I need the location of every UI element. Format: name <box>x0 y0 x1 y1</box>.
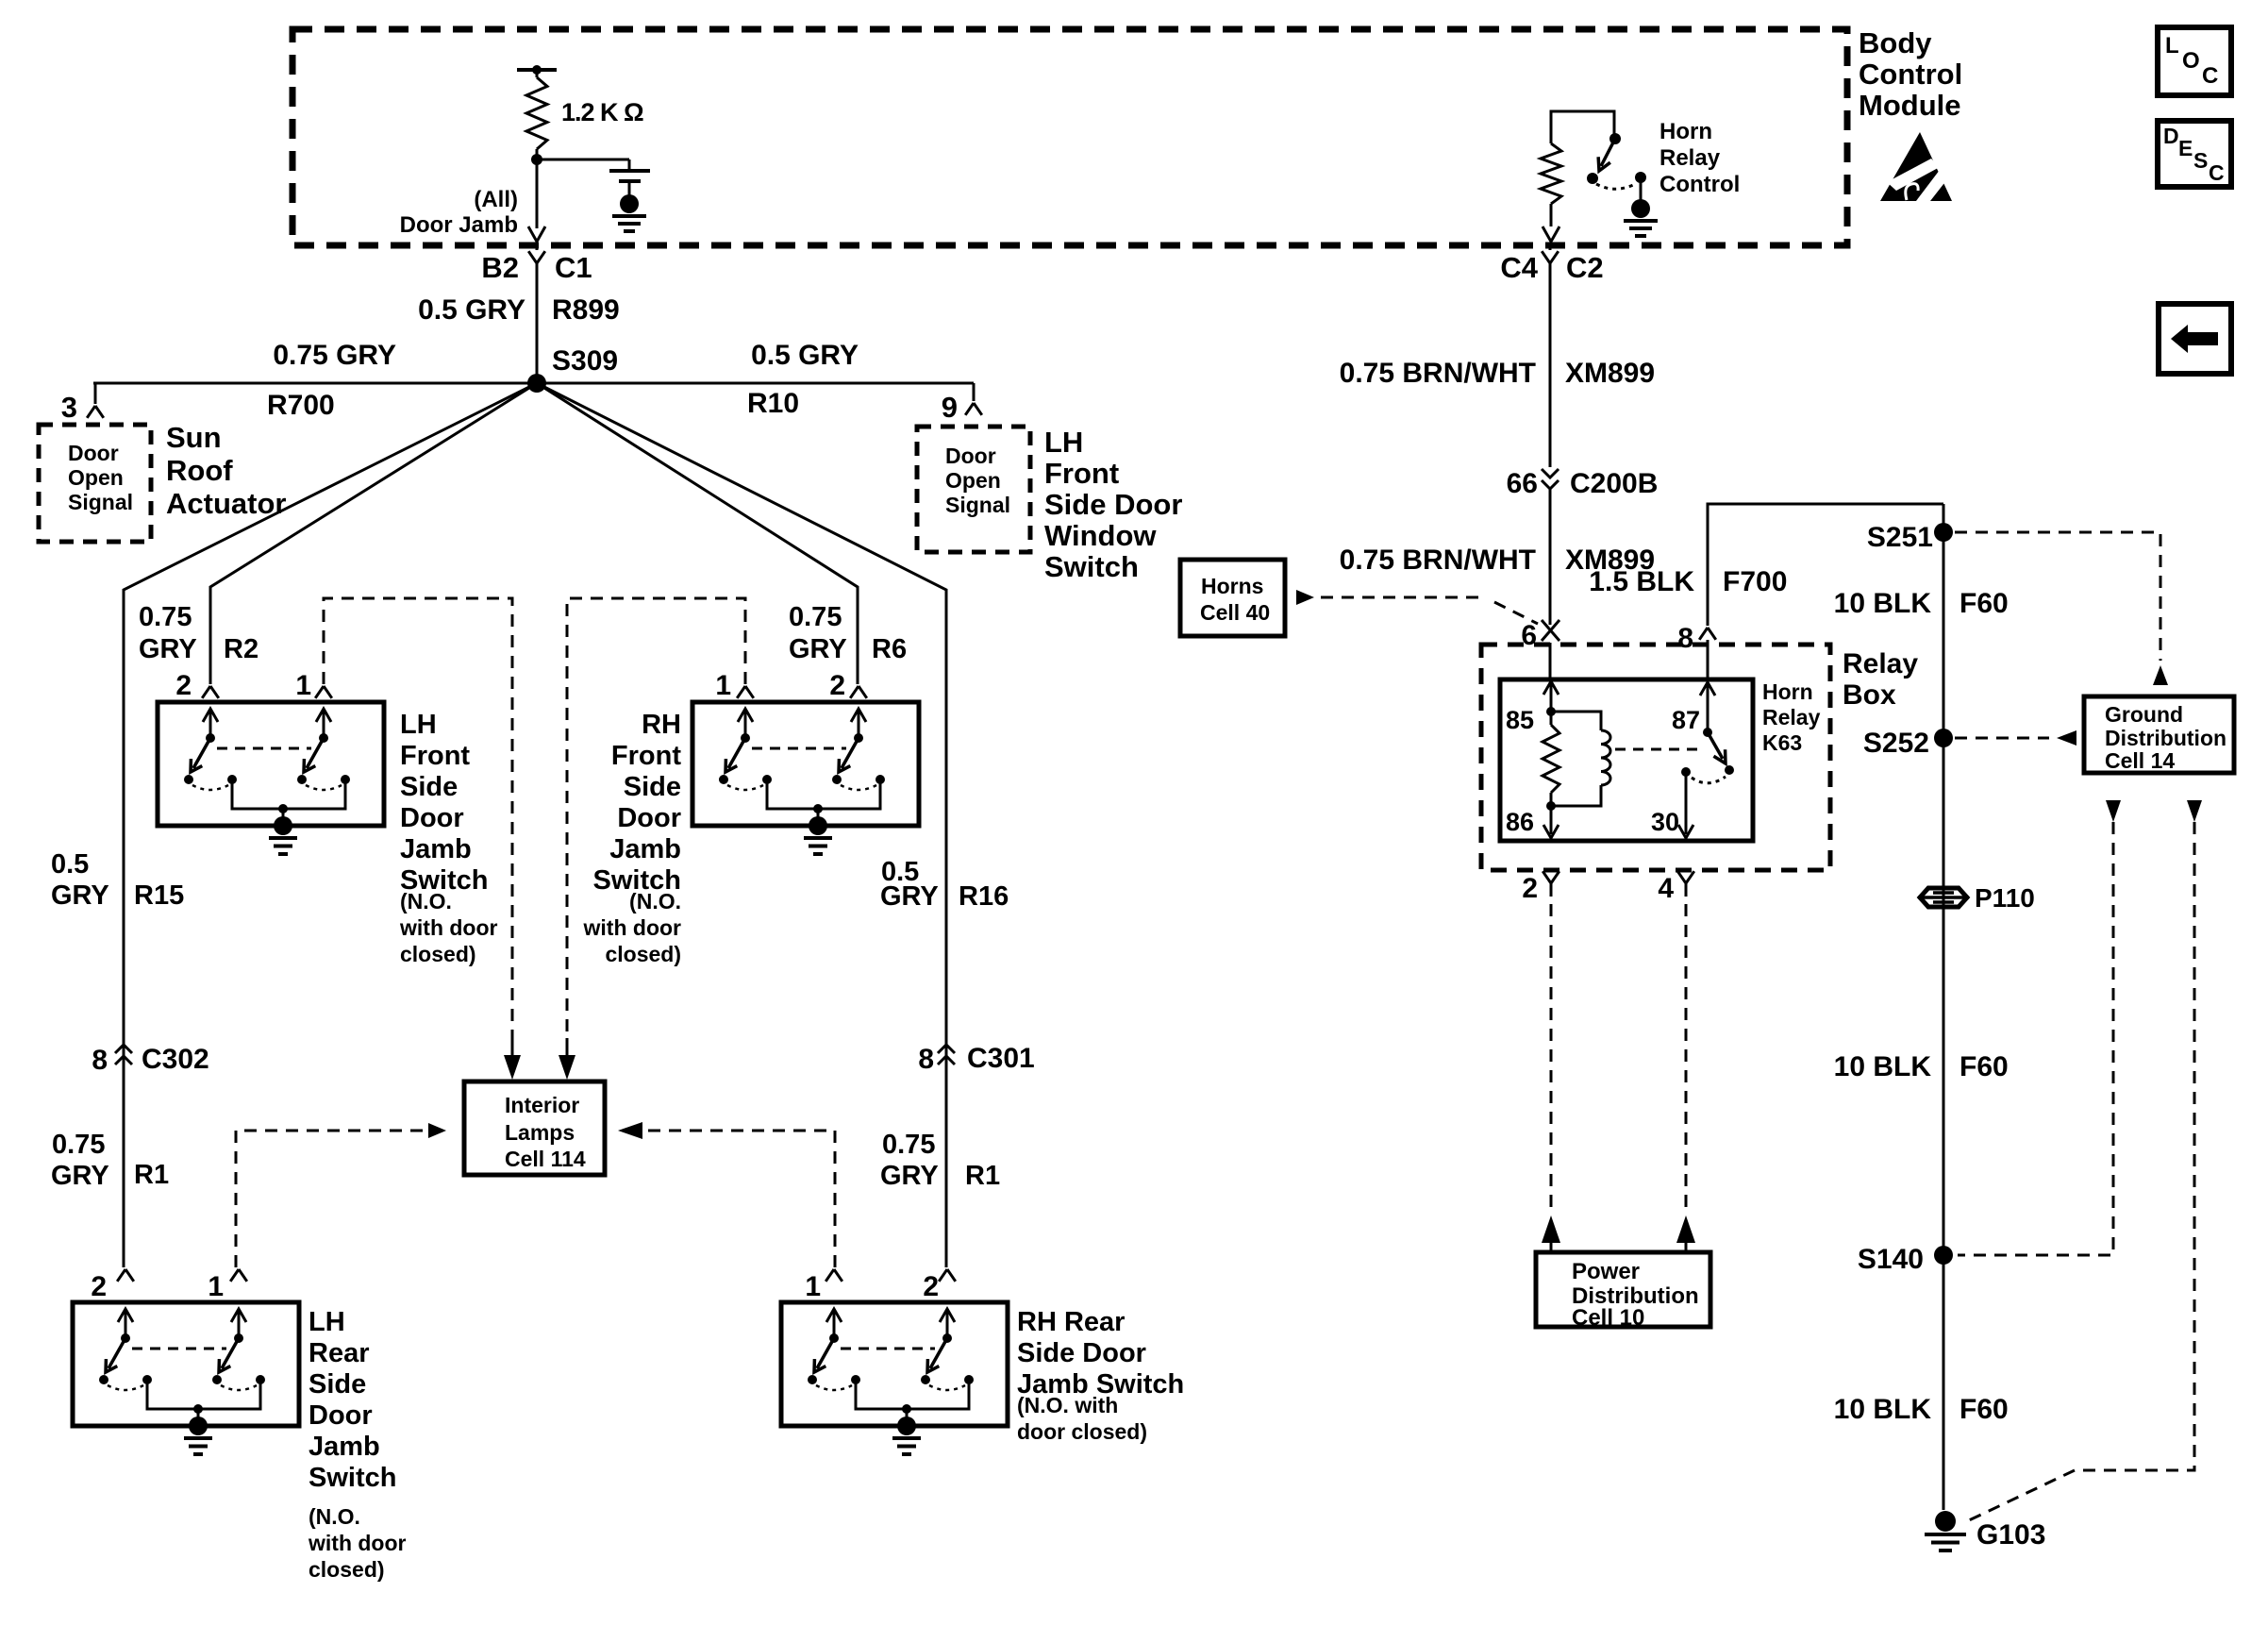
svg-text:8: 8 <box>92 1045 108 1076</box>
LOC reference box <box>2158 27 2231 95</box>
arrowhead into power dist (pin4) <box>1676 1215 1695 1243</box>
wire door jamb output with arrow <box>536 159 539 228</box>
svg-text:Box: Box <box>1843 679 1896 711</box>
svg-text:1: 1 <box>295 670 311 701</box>
connector pin 1 (RH front) <box>737 686 745 698</box>
dashed wire relay pin2 to power dist <box>1550 904 1553 1215</box>
svg-text:10 BLK: 10 BLK <box>1834 1394 1932 1425</box>
svg-text:2: 2 <box>175 670 192 701</box>
svg-text:Module: Module <box>1859 89 1961 122</box>
svg-text:Relay: Relay <box>1843 648 1918 679</box>
relay pin 87 arrow <box>1707 685 1709 732</box>
svg-text:Cell 40: Cell 40 <box>1200 600 1270 625</box>
svg-text:Door: Door <box>400 803 464 833</box>
horn relay control contact dot <box>1587 173 1598 184</box>
relay coil <box>1551 712 1601 730</box>
resistor 1.2 K-ohm <box>536 70 539 77</box>
back-arrow box <box>2159 304 2231 374</box>
svg-text:Lamps: Lamps <box>505 1120 575 1145</box>
svg-text:0.75 GRY: 0.75 GRY <box>273 340 396 371</box>
wire to window switch connector <box>973 383 976 401</box>
wire S309 to R6 branch <box>537 383 858 684</box>
svg-text:Horn: Horn <box>1659 119 1712 144</box>
svg-text:Jamb: Jamb <box>400 834 472 864</box>
dashed wire LH rear pin1 to interior lamps <box>236 1131 423 1267</box>
svg-text:D: D <box>2163 124 2179 148</box>
svg-text:(N.O.: (N.O. <box>309 1504 360 1529</box>
relay pin 30 arrow <box>1685 772 1688 834</box>
relay switch blade <box>1708 732 1723 759</box>
connector pin 2 (LH front) <box>202 686 210 698</box>
wire XM899 lower <box>1549 489 1552 625</box>
svg-text:Cell 10: Cell 10 <box>1572 1305 1644 1331</box>
dashed wire horns to pin 6 <box>1321 596 1483 599</box>
svg-text:GRY: GRY <box>51 880 109 911</box>
svg-text:1: 1 <box>805 1271 821 1302</box>
wire S309 to R2 branch <box>210 383 537 684</box>
svg-text:GRY: GRY <box>880 1161 939 1191</box>
svg-text:9: 9 <box>942 391 958 424</box>
relay dotted arc <box>1692 777 1726 783</box>
svg-text:2: 2 <box>91 1271 107 1302</box>
svg-text:Front: Front <box>1044 457 1119 490</box>
svg-text:R2: R2 <box>224 634 258 664</box>
dashed wire S251 to ground dist <box>1955 532 2160 661</box>
svg-text:Switch: Switch <box>1044 550 1139 583</box>
connector C301 <box>938 1045 955 1053</box>
svg-text:2: 2 <box>829 670 845 701</box>
arrowhead below ground dist (left) <box>2106 800 2121 822</box>
svg-text:S: S <box>2193 148 2208 173</box>
svg-text:1.2 K Ω: 1.2 K Ω <box>561 98 643 126</box>
svg-text:LH: LH <box>400 710 437 740</box>
svg-text:R6: R6 <box>872 634 907 664</box>
svg-text:B2: B2 <box>481 251 519 284</box>
svg-text:Rear: Rear <box>309 1338 370 1368</box>
Horns Cell 40 box <box>1180 560 1285 636</box>
svg-text:Window: Window <box>1044 519 1157 552</box>
horn relay K63 inner box <box>1500 679 1753 841</box>
svg-text:86: 86 <box>1506 808 1534 836</box>
svg-text:Switch: Switch <box>309 1463 396 1493</box>
svg-text:Interior: Interior <box>505 1093 579 1117</box>
svg-text:P110: P110 <box>1975 883 2035 913</box>
svg-text:0.75 BRN/WHT: 0.75 BRN/WHT <box>1340 545 1536 576</box>
horn relay control ground ball <box>1631 199 1650 218</box>
horn relay control ground contact dot <box>1635 172 1646 183</box>
relay switch pivot dot <box>1703 728 1712 737</box>
svg-text:C302: C302 <box>142 1044 209 1075</box>
svg-text:closed): closed) <box>309 1557 385 1582</box>
svg-text:Jamb: Jamb <box>309 1432 380 1462</box>
arrowhead into interior lamps (left drop) <box>511 1038 514 1057</box>
svg-text:Side: Side <box>400 772 458 802</box>
svg-text:2: 2 <box>1522 873 1538 904</box>
svg-text:XM899: XM899 <box>1565 358 1655 389</box>
wire S309 to R15 branch <box>124 383 537 1267</box>
svg-text:0.75: 0.75 <box>882 1130 935 1160</box>
connector pin 1 (LH rear) <box>230 1269 239 1282</box>
arrowhead into interior lamps (left) <box>428 1123 446 1138</box>
svg-text:Side Door: Side Door <box>1017 1338 1146 1368</box>
wire F700 <box>1708 504 1943 626</box>
splice S309 <box>527 374 546 393</box>
svg-text:Control: Control <box>1859 58 1962 91</box>
svg-text:2: 2 <box>923 1271 939 1302</box>
svg-text:(N.O. with: (N.O. with <box>1017 1393 1118 1417</box>
svg-text:3: 3 <box>61 391 77 424</box>
horn relay control pivot dot <box>1609 133 1621 144</box>
relay mechanical dashed link <box>1615 748 1698 751</box>
RH rear side door jamb switch box <box>781 1302 1008 1426</box>
svg-text:Jamb: Jamb <box>609 834 681 864</box>
relay pin 86 arrow <box>1550 806 1553 834</box>
svg-text:0.75 BRN/WHT: 0.75 BRN/WHT <box>1340 358 1536 389</box>
svg-text:LH: LH <box>309 1307 345 1337</box>
relay coil bottom node <box>1546 801 1556 811</box>
svg-text:S251: S251 <box>1867 522 1933 553</box>
svg-text:Power: Power <box>1572 1259 1640 1284</box>
dashed wire ground dist to G103 <box>1967 822 2194 1521</box>
svg-text:R700: R700 <box>267 390 335 421</box>
svg-text:door closed): door closed) <box>1017 1419 1147 1444</box>
svg-text:Front: Front <box>611 741 681 771</box>
wire pin6 into relay box <box>1549 643 1552 679</box>
svg-text:30: 30 <box>1651 808 1679 836</box>
dashed wire LH front pin1 to interior lamps <box>324 598 512 1038</box>
bus wire left from S309 <box>93 382 537 385</box>
relay coil resistor <box>1543 725 1559 793</box>
svg-text:Open: Open <box>68 465 124 490</box>
relay coil top node <box>1546 707 1556 716</box>
svg-text:Horn: Horn <box>1762 679 1813 704</box>
svg-text:0.5 GRY: 0.5 GRY <box>418 294 525 326</box>
svg-text:with door: with door <box>308 1531 407 1555</box>
svg-text:Signal: Signal <box>945 493 1010 517</box>
svg-text:Sun: Sun <box>166 421 222 454</box>
svg-text:with door: with door <box>399 915 498 940</box>
svg-text:R899: R899 <box>552 294 620 326</box>
sun roof door-open-signal dashed box <box>39 425 151 542</box>
LH front side door jamb switch box <box>158 702 384 826</box>
svg-text:R16: R16 <box>959 881 1009 912</box>
svg-text:Side: Side <box>309 1369 366 1400</box>
wire S309 to R16 branch <box>537 383 946 1267</box>
dashed wire relay pin4 to power dist <box>1685 904 1688 1215</box>
Power Distribution box <box>1536 1252 1710 1327</box>
wire to sun roof connector <box>93 383 95 404</box>
svg-text:Control: Control <box>1659 172 1740 197</box>
svg-text:LH: LH <box>1044 426 1083 459</box>
connector pin 1 (RH rear) <box>825 1269 834 1282</box>
horn relay control ground symbol <box>1624 219 1658 223</box>
horn relay control resistor <box>1541 143 1561 204</box>
arrowhead into interior lamps (right) <box>618 1122 642 1139</box>
svg-text:RH Rear: RH Rear <box>1017 1307 1125 1337</box>
svg-text:closed): closed) <box>400 942 476 966</box>
horn relay control switch blade <box>1601 139 1615 166</box>
connector pin 8 <box>1699 628 1708 640</box>
ground G103 ball <box>1935 1511 1956 1532</box>
connector C200B <box>1542 469 1559 478</box>
svg-text:Door Jamb: Door Jamb <box>400 212 518 238</box>
svg-text:F700: F700 <box>1723 566 1787 597</box>
connector pin 2 (LH rear) <box>117 1269 125 1282</box>
svg-text:(All): (All) <box>474 187 518 212</box>
dashed wire S252 to ground dist <box>1955 737 2049 740</box>
window switch door-open-signal dashed box <box>917 427 1030 552</box>
arrow out of horns box <box>1296 590 1314 605</box>
connector pin 3 <box>87 406 95 418</box>
ground symbol inside BCM <box>612 214 646 218</box>
arrowhead into ground dist (top) <box>2153 665 2168 685</box>
node junction below resistor <box>531 154 542 165</box>
svg-text:GRY: GRY <box>789 634 847 664</box>
svg-text:Ground: Ground <box>2105 702 2183 727</box>
svg-text:C4: C4 <box>1500 251 1538 284</box>
connector C4-C2 <box>1542 251 1550 263</box>
svg-text:Cell 14: Cell 14 <box>2105 748 2175 773</box>
svg-text:RH: RH <box>642 710 681 740</box>
ESD sensitive device symbol <box>1880 132 1952 201</box>
svg-text:8: 8 <box>1677 623 1693 654</box>
svg-text:Actuator: Actuator <box>166 487 286 520</box>
svg-text:Door: Door <box>617 803 681 833</box>
arrowhead into interior lamps (right drop) <box>566 1038 569 1057</box>
svg-text:10 BLK: 10 BLK <box>1834 588 1932 619</box>
svg-text:0.75: 0.75 <box>52 1130 105 1160</box>
svg-text:R15: R15 <box>134 880 184 911</box>
LH rear side door jamb switch box <box>73 1302 299 1426</box>
svg-text:E: E <box>2178 136 2193 160</box>
connector pin 9 <box>965 403 974 415</box>
svg-text:closed): closed) <box>605 942 681 966</box>
horn relay control top bar <box>1551 111 1614 143</box>
svg-text:1: 1 <box>715 670 731 701</box>
svg-text:8: 8 <box>918 1044 934 1075</box>
svg-text:1: 1 <box>208 1271 224 1302</box>
svg-text:GRY: GRY <box>880 881 939 912</box>
svg-text:Horns: Horns <box>1201 574 1263 598</box>
svg-text:87: 87 <box>1672 706 1700 734</box>
svg-text:10 BLK: 10 BLK <box>1834 1051 1932 1082</box>
svg-text:Relay: Relay <box>1659 145 1721 171</box>
svg-text:R1: R1 <box>965 1161 1000 1191</box>
svg-text:Front: Front <box>400 741 470 771</box>
relay blade contact dot <box>1725 765 1734 775</box>
svg-text:F60: F60 <box>1959 1394 2009 1425</box>
arrowhead into power dist (pin2) <box>1542 1215 1560 1243</box>
svg-text:0.75: 0.75 <box>789 602 842 632</box>
relay pin 85 arrow <box>1550 682 1553 712</box>
connector pin 6 X <box>1542 620 1559 641</box>
Ground Distribution box <box>2084 696 2234 773</box>
connector C302 <box>115 1045 132 1053</box>
svg-text:66: 66 <box>1507 468 1538 499</box>
svg-text:C1: C1 <box>555 251 592 284</box>
wire junction to battery branch <box>537 159 629 161</box>
svg-text:F60: F60 <box>1959 1051 2009 1082</box>
ground G103 symbol <box>1925 1533 1966 1536</box>
Interior Lamps box <box>464 1081 605 1175</box>
ground dot inside BCM <box>620 194 639 213</box>
svg-text:C: C <box>2202 63 2218 89</box>
horn relay control output arrow <box>1543 226 1559 242</box>
bus wire right from S309 <box>537 382 974 385</box>
horn relay control dotted arc <box>1596 183 1637 189</box>
svg-text:C301: C301 <box>967 1043 1035 1074</box>
svg-text:F60: F60 <box>1959 588 2009 619</box>
dashed wire ground dist to S140 <box>1958 822 2113 1255</box>
connector pin 1 (LH front) <box>315 686 324 698</box>
svg-text:L: L <box>2165 33 2179 59</box>
connector pin 2 (relay) <box>1543 871 1551 883</box>
svg-text:85: 85 <box>1506 706 1534 734</box>
svg-text:Roof: Roof <box>166 454 233 487</box>
svg-text:GRY: GRY <box>51 1161 109 1191</box>
RH front side door jamb switch box <box>692 702 919 826</box>
svg-text:0.5 GRY: 0.5 GRY <box>751 340 859 371</box>
svg-text:GRY: GRY <box>139 634 197 664</box>
splice S140 <box>1934 1246 1953 1265</box>
svg-text:Distribution: Distribution <box>2105 726 2226 750</box>
svg-text:C200B: C200B <box>1570 468 1658 499</box>
svg-text:S140: S140 <box>1858 1244 1924 1275</box>
svg-text:K63: K63 <box>1762 730 1802 755</box>
svg-text:Relay: Relay <box>1762 705 1821 729</box>
svg-text:G103: G103 <box>1976 1519 2045 1551</box>
svg-text:S309: S309 <box>552 345 618 377</box>
arrowhead below ground dist (right) <box>2187 800 2202 822</box>
svg-text:(N.O.: (N.O. <box>400 889 452 914</box>
battery plates symbol <box>609 169 650 173</box>
svg-text:(N.O.: (N.O. <box>629 889 681 914</box>
connector B2-C1 <box>528 251 537 263</box>
svg-text:Side: Side <box>624 772 681 802</box>
wire R899 <box>536 263 539 383</box>
power feed bar <box>517 68 557 72</box>
svg-text:Door: Door <box>68 441 119 465</box>
svg-text:Door: Door <box>945 444 996 468</box>
wire 10 BLK F60 main <box>1943 504 1945 1510</box>
svg-text:0.75: 0.75 <box>139 602 192 632</box>
svg-text:C2: C2 <box>1566 251 1604 284</box>
svg-text:C: C <box>2209 160 2225 185</box>
svg-text:4: 4 <box>1658 873 1674 904</box>
svg-text:Door: Door <box>309 1400 373 1431</box>
connector pin 2 (RH rear) <box>939 1269 947 1282</box>
svg-text:R10: R10 <box>747 388 799 419</box>
relay pin30 contact dot <box>1681 767 1691 777</box>
arrowhead toward S252 <box>2057 730 2076 746</box>
grommet P110 <box>1920 888 1967 907</box>
Relay Box dashed outline <box>1481 645 1830 870</box>
svg-text:S252: S252 <box>1863 728 1929 759</box>
svg-text:Open: Open <box>945 468 1001 493</box>
svg-text:Body: Body <box>1859 26 1932 59</box>
svg-text:0.5: 0.5 <box>51 849 89 880</box>
wire XM899 upper <box>1549 263 1552 467</box>
svg-text:O: O <box>2182 48 2200 74</box>
dashed wire RH rear pin1 to interior lamps <box>647 1131 835 1267</box>
splice S251 <box>1934 523 1953 542</box>
connector pin 4 (relay) <box>1677 871 1686 883</box>
svg-text:Side Door: Side Door <box>1044 488 1182 521</box>
Body Control Module dashed box <box>292 29 1847 245</box>
horn relay control ground stem <box>1640 177 1643 201</box>
svg-text:with door: with door <box>583 915 682 940</box>
svg-text:Signal: Signal <box>68 490 133 514</box>
svg-text:R1: R1 <box>134 1160 169 1190</box>
splice S252 <box>1934 729 1953 747</box>
wire pin8 into relay box <box>1707 640 1709 679</box>
dashed wire RH front pin1 to interior lamps <box>567 598 745 1038</box>
svg-text:Cell 114: Cell 114 <box>505 1147 586 1171</box>
connector pin 2 (RH front) <box>850 686 859 698</box>
DESC reference box <box>2158 121 2231 187</box>
svg-text:1.5 BLK: 1.5 BLK <box>1589 566 1694 597</box>
